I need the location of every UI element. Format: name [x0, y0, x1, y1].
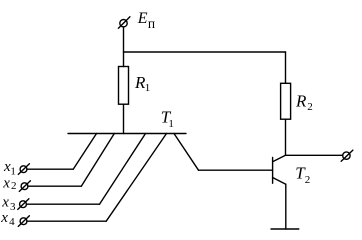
terminal x4 circle	[20, 218, 27, 225]
transistor T1 collector diagonal	[174, 134, 199, 171]
svg-text:1: 1	[10, 166, 16, 178]
wire x3 horizontal	[26, 203, 99, 205]
transistor T1 emitter 4 diagonal	[106, 134, 166, 222]
wire R1 bottom to T1 base bar	[123, 104, 125, 133]
transistor T1 emitter 3 diagonal	[100, 134, 146, 205]
terminal Ep (supply terminal circle)	[120, 20, 127, 27]
terminal Ep slash	[118, 17, 129, 29]
transistor T2 collector diagonal	[273, 155, 286, 161]
transistor T1 emitter 2 diagonal	[81, 134, 114, 187]
transistor T2 emitter diagonal	[273, 178, 286, 185]
svg-text:2: 2	[11, 180, 17, 192]
transistor T2 base bar	[272, 158, 274, 184]
terminal x4 slash	[18, 216, 29, 227]
terminal output slash	[341, 150, 353, 161]
transistor T1 base bar	[68, 133, 186, 135]
wire output horizontal	[286, 154, 343, 156]
wire top horizontal to R2 branch	[124, 51, 286, 53]
wire T2 emitter down	[285, 184, 287, 229]
wire x4 horizontal	[27, 220, 106, 222]
resistor R1	[119, 67, 129, 105]
svg-text:x: x	[0, 210, 8, 226]
terminal x1 slash	[18, 164, 29, 175]
wire R2 branch vertical	[285, 52, 287, 83]
svg-text:R: R	[295, 91, 307, 110]
terminal x3 circle	[20, 201, 27, 208]
wire x2 horizontal	[28, 185, 81, 187]
terminal output circle	[343, 152, 350, 159]
transistor T1 emitter 1 diagonal	[73, 134, 96, 170]
terminal x1 circle	[20, 166, 27, 173]
svg-text:x: x	[1, 194, 9, 210]
svg-text:E: E	[137, 10, 148, 27]
wire x1 horizontal	[27, 168, 73, 170]
terminal x3 slash	[18, 199, 29, 210]
terminal x2 circle	[21, 183, 28, 190]
wire R2 bottom to T2 collector node	[285, 119, 287, 155]
svg-text:4: 4	[9, 216, 15, 228]
wire Ep to R1 top	[123, 27, 125, 67]
svg-text:1: 1	[168, 118, 174, 130]
svg-text:2: 2	[305, 174, 311, 186]
wire T1 collector to T2 base	[199, 169, 273, 171]
svg-text:1: 1	[145, 82, 151, 94]
resistor R2	[281, 83, 291, 119]
ground bar	[271, 228, 299, 230]
svg-text:п: п	[148, 16, 155, 31]
terminal x2 slash	[19, 181, 30, 192]
svg-text:2: 2	[307, 101, 313, 113]
svg-text:3: 3	[10, 201, 16, 213]
svg-text:x: x	[2, 175, 10, 191]
